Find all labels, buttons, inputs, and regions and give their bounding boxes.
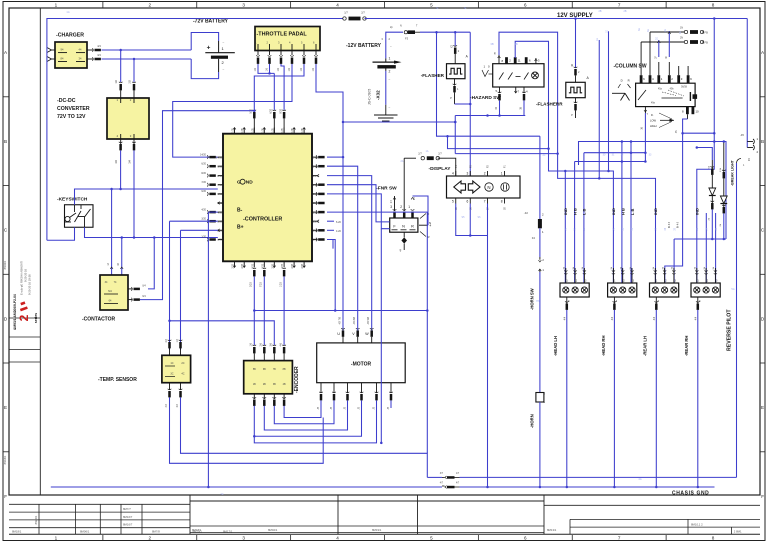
- wire rearLH p2 path: [665, 133, 683, 283]
- wire feeder A: [579, 142, 727, 240]
- column sw bottom left pin: [644, 107, 646, 113]
- svg-text:F: F: [761, 494, 764, 499]
- wire hazard loop B: [515, 41, 613, 283]
- wire brake R down: [723, 213, 725, 239]
- wire charger- to battery loop: [102, 58, 192, 60]
- svg-text:-FNR SW: -FNR SW: [376, 186, 397, 192]
- wire rear lh to bus: [655, 310, 657, 487]
- charger pin B+ lead: [87, 49, 93, 51]
- svg-text:H B: H B: [572, 208, 577, 215]
- svg-text:2: 2: [576, 280, 578, 283]
- svg-text:2/35: 2/35: [262, 263, 264, 268]
- svg-text:6/20: 6/20: [201, 162, 206, 165]
- svg-text:2: 2: [389, 37, 391, 41]
- svg-text:8/20: 8/20: [201, 172, 206, 175]
- svg-text:X2: X2: [451, 44, 454, 48]
- wire fnr p2 up: [403, 158, 405, 211]
- wire temp pin connectors top: [168, 340, 172, 341]
- svg-text:4/7: 4/7: [456, 482, 460, 484]
- svg-text:-12V BATTERY: -12V BATTERY: [346, 43, 382, 49]
- svg-text:-P2: -P2: [740, 133, 745, 137]
- fnr bottom pin: [403, 232, 405, 237]
- svg-text:J5: J5: [331, 406, 333, 409]
- contactor right pin1: [128, 288, 133, 290]
- title block middle grid: [190, 500, 544, 502]
- svg-text:4: 4: [336, 536, 339, 541]
- fnr top pin3: [394, 196, 396, 211]
- fnr pin connectors: [393, 209, 397, 210]
- wire battery line to display p3: [420, 31, 470, 33]
- node brakeL feed: [696, 146, 699, 149]
- head rh lamp cluster E2: [612, 268, 614, 283]
- svg-text:8: 8: [682, 110, 684, 114]
- svg-text:1/36: 1/36: [217, 239, 222, 242]
- svg-text:-72V BATTERY: -72V BATTERY: [193, 19, 229, 25]
- svg-text:D: D: [761, 316, 765, 321]
- svg-text:P4: P4: [456, 164, 458, 168]
- svg-text:IND: IND: [563, 208, 568, 215]
- svg-text:3E: 3E: [638, 28, 641, 31]
- svg-text:6.20: 6.20: [336, 221, 341, 224]
- svg-text:8/36: 8/36: [217, 175, 222, 178]
- node y122 end: [454, 121, 457, 124]
- wire B bus below controller: [254, 310, 427, 312]
- svg-text:1: 1: [743, 164, 745, 167]
- svg-text:2: 2: [149, 3, 152, 8]
- wire hazard p5 down: [499, 100, 501, 115]
- hazard top pin 8: [498, 55, 500, 64]
- svg-text:-TEMP. SENSOR: -TEMP. SENSOR: [98, 377, 137, 383]
- fuse F5 display feed: [421, 157, 424, 160]
- svg-text:J5: J5: [374, 406, 376, 409]
- node motor U taps: [342, 121, 345, 124]
- node brake R join: [723, 238, 726, 241]
- svg-text:-MOTOR: -MOTOR: [351, 362, 372, 368]
- wire rearRH p2 stub: [705, 213, 707, 283]
- svg-text:3d: 3d: [653, 266, 655, 269]
- wire charger- down to dcdc: [133, 59, 135, 82]
- svg-text:4.20: 4.20: [336, 230, 341, 233]
- svg-text:2/2: 2/2: [127, 79, 131, 83]
- svg-text:-HEAD RH: -HEAD RH: [601, 336, 606, 356]
- svg-text:-CHARGER: -CHARGER: [56, 33, 84, 39]
- wire throttle p5: [254, 64, 304, 110]
- svg-text:M4: M4: [108, 290, 112, 293]
- svg-text:1: 1: [55, 536, 58, 541]
- keyswitch S1: [65, 205, 94, 228]
- hazard bottom pin 4: [523, 87, 525, 93]
- wire feeder D headLH-HB: [575, 161, 646, 163]
- svg-text:P2: P2: [747, 157, 751, 161]
- svg-text:C: C: [4, 228, 8, 233]
- svg-text:J5: J5: [388, 406, 390, 409]
- svg-text:2C: 2C: [181, 362, 184, 365]
- controller top pins: [234, 128, 236, 134]
- svg-text:4/4: 4/4: [165, 403, 168, 407]
- wire throttle p3: [281, 64, 284, 110]
- wire ctrl to fnr b: [327, 194, 390, 229]
- svg-text:2/7: 2/7: [361, 11, 365, 15]
- svg-text:R: R: [628, 79, 630, 83]
- controller top pin connectors: [253, 110, 257, 111]
- svg-text:REVERSE PILOT: REVERSE PILOT: [727, 309, 733, 351]
- hazard bottom pin 5: [499, 87, 501, 93]
- svg-text:3: 3: [390, 205, 392, 209]
- controller bottom pin connectors: [253, 268, 257, 269]
- svg-text:2/7: 2/7: [438, 153, 442, 156]
- svg-text:2d: 2d: [709, 217, 711, 220]
- svg-text:3/36: 3/36: [217, 220, 222, 223]
- node feederC right: [644, 151, 647, 154]
- svg-text:F3: F3: [405, 37, 409, 41]
- flasher K2 top pin: [454, 32, 456, 46]
- svg-text:3: 3: [381, 37, 383, 41]
- wire column br to supply drop: [687, 114, 689, 119]
- svg-text:-FLASHERR: -FLASHERR: [536, 102, 563, 107]
- svg-text:N: N: [429, 221, 431, 225]
- svg-text:9-20-20 16: 9-20-20 16: [24, 268, 28, 282]
- svg-text:B+: B+: [237, 225, 244, 231]
- svg-text:IND: IND: [695, 208, 700, 215]
- wire hazard loop A: [499, 32, 656, 283]
- svg-text:R: R: [411, 225, 414, 229]
- svg-text:14/20: 14/20: [200, 153, 207, 156]
- node y189 taps: [110, 188, 113, 191]
- hazard top pin 2: [505, 57, 508, 64]
- svg-text:6: 6: [524, 3, 527, 8]
- svg-text:3/4: 3/4: [127, 159, 131, 163]
- svg-text:S6: S6: [478, 216, 482, 219]
- svg-text:3/7: 3/7: [440, 473, 444, 475]
- node charger- dcdc tap: [133, 58, 136, 61]
- svg-text:8M18/1: 8M18/1: [192, 528, 202, 532]
- controller bottom pins: [234, 261, 236, 267]
- svg-text:1: 1: [544, 400, 546, 404]
- svg-text:F2: F2: [532, 236, 536, 240]
- svg-text:N: N: [402, 225, 405, 229]
- svg-text:B-: B-: [237, 208, 243, 214]
- horn switch S5: [539, 260, 542, 262]
- svg-text:P: P: [571, 113, 573, 117]
- svg-text:8M19/1: 8M19/1: [372, 528, 382, 532]
- wire ctrl to fnr a: [327, 185, 390, 222]
- svg-text:S5: S5: [462, 216, 466, 219]
- svg-text:3/6: 3/6: [270, 342, 273, 346]
- svg-text:–: –: [223, 40, 225, 44]
- wire staircase enc2-motor3: [264, 400, 347, 430]
- wire y153 link: [455, 153, 557, 155]
- svg-text:3d: 3d: [672, 266, 674, 269]
- wire temp feed1: [170, 220, 218, 222]
- svg-text:8M06/1: 8M06/1: [80, 529, 90, 533]
- node contactor p2 join: [253, 109, 256, 112]
- svg-text:45: 45: [675, 130, 678, 133]
- svg-text:3: 3: [538, 59, 540, 63]
- svg-text:1: 1: [656, 280, 658, 283]
- flasher K2: [447, 64, 466, 79]
- fuse F3: [684, 30, 687, 33]
- svg-text:1: 1: [55, 3, 58, 8]
- svg-text:4/20: 4/20: [201, 208, 206, 211]
- svg-text:8M10,1 2: 8M10,1 2: [691, 522, 703, 526]
- svg-text:1: 1: [457, 87, 459, 91]
- svg-text:+: +: [207, 45, 211, 52]
- svg-text:1/2: 1/2: [114, 79, 118, 83]
- hazard top pin 3: [535, 58, 537, 64]
- wire fnr to fuse link: [404, 157, 416, 159]
- svg-text:3B: 3B: [273, 383, 276, 386]
- svg-text:4/36: 4/36: [217, 211, 222, 214]
- svg-text:HIGH: HIGH: [650, 124, 657, 128]
- wire hazard p4 down: [523, 100, 525, 115]
- svg-text:3/20: 3/20: [250, 282, 253, 287]
- dcdc pin1 connector: [119, 82, 123, 83]
- node feederA supply tap: [713, 140, 716, 143]
- svg-text:6/36: 6/36: [217, 165, 222, 168]
- svg-text:6/36: 6/36: [217, 193, 222, 196]
- wire v2 stub: [608, 31, 610, 171]
- svg-text:5B: 5B: [253, 368, 256, 371]
- node B bus dots: [253, 309, 256, 312]
- svg-text:34: 34: [665, 227, 667, 230]
- svg-text:6B: 6B: [263, 368, 266, 371]
- svg-text:14: 14: [107, 262, 110, 265]
- svg-text:2: 2: [578, 70, 580, 74]
- svg-text:2: 2: [757, 150, 759, 154]
- svg-text:IN 4.6: IN 4.6: [678, 221, 680, 228]
- wire keyswitch aux bus: [85, 227, 218, 237]
- svg-text:1N: 1N: [680, 27, 683, 30]
- svg-text:2/7: 2/7: [391, 199, 393, 203]
- svg-text:3/4: 3/4: [176, 403, 179, 407]
- svg-text:2: 2: [542, 258, 544, 262]
- svg-text:-X9 9/8: -X9 9/8: [367, 316, 370, 325]
- wire rear rh to bus: [697, 310, 699, 487]
- svg-text:8: 8: [501, 200, 503, 204]
- svg-text:-HORN: -HORN: [530, 414, 535, 428]
- svg-text:E-sub-pE RIKSHA ABHIJATI: E-sub-pE RIKSHA ABHIJATI: [20, 261, 24, 295]
- svg-text:4/7: 4/7: [414, 196, 416, 200]
- svg-text:1/4: 1/4: [176, 338, 179, 342]
- svg-text:3: 3: [242, 3, 245, 8]
- svg-text:8M7/8: 8M7/8: [152, 529, 160, 533]
- svg-text:E: E: [4, 405, 7, 410]
- svg-text:4/7: 4/7: [440, 482, 444, 484]
- node y148 tap: [446, 135, 449, 138]
- wire battery+ loop: [191, 33, 218, 51]
- wire ctrl row239 drop: [327, 240, 335, 311]
- svg-text:2E: 2E: [656, 37, 659, 40]
- svg-text:4: 4: [336, 3, 339, 8]
- svg-text:2: 2: [17, 314, 31, 321]
- wire contactor p1 drop: [111, 189, 113, 275]
- svg-text:2/6: 2/6: [260, 342, 263, 346]
- svg-text:5: 5: [430, 3, 433, 8]
- grid column labels 1-8: [102, 2, 104, 9]
- wire horn to bus: [539, 402, 541, 487]
- svg-text:W: W: [365, 332, 369, 336]
- svg-text:3B: 3B: [514, 42, 517, 46]
- svg-text:3: 3: [681, 77, 683, 81]
- svg-text:LOW: LOW: [650, 119, 656, 123]
- node headRH-LB taps: [630, 140, 633, 143]
- node display join: [469, 234, 472, 237]
- wire horn upper: [539, 136, 541, 219]
- svg-text:1G: 1G: [66, 11, 69, 14]
- wire column p2 up: [649, 32, 651, 75]
- node charger+ dcdc tap: [119, 49, 122, 52]
- svg-text:5: 5: [495, 89, 497, 93]
- wire temp bus to encoder p3: [170, 321, 275, 345]
- svg-text:8M02/1: 8M02/1: [268, 528, 278, 532]
- svg-text:1: 1: [661, 77, 663, 81]
- node supply right tap: [713, 17, 716, 20]
- svg-text:-REAR RH: -REAR RH: [684, 336, 689, 356]
- svg-text:35: 35: [674, 227, 676, 230]
- display icon beam: [501, 183, 509, 191]
- svg-text:2d: 2d: [720, 223, 722, 226]
- head lh lamp cluster E1: [565, 268, 567, 283]
- dcdc converter U2: [107, 98, 149, 139]
- wire left border loop: [47, 19, 345, 241]
- svg-text:1C: 1C: [170, 362, 173, 365]
- wire head lh to bus: [566, 310, 568, 487]
- wire contactor right run: [148, 238, 154, 289]
- charger AC input arrows: [47, 48, 52, 53]
- svg-text:7: 7: [618, 3, 621, 8]
- svg-text:4E: 4E: [679, 31, 682, 34]
- wire horn lower: [539, 272, 541, 392]
- svg-text:JS-C-0905: JS-C-0905: [368, 89, 372, 105]
- svg-text:D: D: [621, 79, 623, 83]
- column sw bottom right pins: [686, 107, 689, 114]
- svg-text:6: 6: [466, 200, 468, 204]
- svg-text:3E: 3E: [647, 29, 650, 32]
- fuse F1 on supply: [343, 17, 346, 20]
- wire supply main: [365, 18, 748, 20]
- svg-text:38: 38: [571, 63, 574, 66]
- svg-text:2/35: 2/35: [282, 263, 284, 268]
- svg-text:3: 3: [585, 280, 587, 283]
- svg-text:U: U: [337, 332, 340, 336]
- svg-text:8M13/1: 8M13/1: [547, 528, 557, 532]
- svg-text:-X9 8/8: -X9 8/8: [353, 316, 356, 325]
- svg-text:2: 2: [222, 60, 225, 65]
- wire display p5p6 join: [456, 204, 488, 236]
- dcdc pin4 connector: [119, 142, 123, 143]
- wire throttle p6: [316, 64, 455, 122]
- battery G2 12V: [385, 58, 387, 62]
- node flasher loop tap: [435, 31, 438, 34]
- wire head rh to bus: [613, 310, 615, 487]
- node brake L join: [711, 238, 714, 241]
- svg-text:1/6: 1/6: [288, 67, 291, 71]
- svg-text:B: B: [761, 139, 764, 144]
- svg-text:1/20: 1/20: [279, 282, 282, 287]
- svg-text:2: 2: [671, 77, 673, 81]
- svg-text:A: A: [761, 50, 765, 55]
- charger U10: [55, 42, 87, 68]
- svg-text:2: 2: [542, 213, 544, 217]
- svg-text:3/4: 3/4: [97, 53, 101, 57]
- contactor K1: [100, 275, 128, 310]
- wire flasher to display p3: [455, 103, 471, 105]
- charger pin B- lead: [87, 58, 93, 60]
- svg-text:1E: 1E: [596, 38, 599, 41]
- svg-text:6: 6: [524, 536, 527, 541]
- wire v1 stub: [598, 40, 600, 178]
- wire motor6 stub: [390, 400, 392, 408]
- svg-text:N: N: [487, 185, 490, 190]
- svg-text:5G: 5G: [731, 288, 734, 291]
- motor bottom pins: [320, 383, 322, 393]
- svg-text:8M7/7: 8M7/7: [123, 507, 131, 511]
- svg-text:9-20-20 16 19-36: 9-20-20 16 19-36: [28, 274, 32, 295]
- svg-text:3: 3: [242, 536, 245, 541]
- motor top connectors: [341, 328, 345, 329]
- svg-text:IND: IND: [611, 208, 616, 215]
- svg-text:-HORN SW: -HORN SW: [530, 288, 535, 310]
- svg-text:2: 2: [509, 59, 511, 63]
- column p6 stub: [687, 66, 689, 75]
- svg-text:4G: 4G: [638, 478, 641, 481]
- svg-text:-CONTACTOR: -CONTACTOR: [82, 317, 116, 323]
- svg-text:4/4: 4/4: [114, 159, 118, 163]
- svg-text:6/4: 6/4: [142, 295, 146, 298]
- left title strip: [9, 8, 40, 495]
- brake branch R: [722, 170, 726, 171]
- display U5: [447, 176, 521, 198]
- controller U3: [223, 134, 312, 262]
- svg-text:-KEYSWITCH: -KEYSWITCH: [57, 197, 88, 203]
- svg-text:1/6: 1/6: [250, 342, 253, 346]
- svg-text:1: 1: [614, 280, 616, 283]
- svg-text:2: 2: [458, 49, 460, 53]
- node staircase junction: [253, 435, 256, 438]
- svg-text:3: 3: [675, 280, 677, 283]
- svg-text:1/6: 1/6: [300, 67, 303, 71]
- wire contactor p2 drop: [121, 238, 123, 276]
- wire throttle p2: [269, 64, 271, 73]
- svg-text:-X9 7/8: -X9 7/8: [338, 316, 341, 325]
- controller right pin connectors: [316, 155, 317, 159]
- svg-text:33: 33: [649, 154, 652, 157]
- svg-text:6: 6: [529, 59, 531, 63]
- wire charger+ to battery: [102, 49, 192, 51]
- svg-text:8: 8: [502, 59, 504, 63]
- svg-text:T: T: [416, 25, 418, 28]
- grid row labels A-F: [3, 96, 9, 98]
- node gnd bus joins: [207, 486, 210, 489]
- node fnr aux join: [380, 442, 383, 445]
- wire ctrl row157 right: [327, 156, 343, 158]
- hazard switch S2: [493, 64, 544, 87]
- wire rear bus: [674, 238, 726, 240]
- svg-text:2: 2: [389, 70, 391, 74]
- wire ctrl to encoder p2: [263, 276, 265, 345]
- wire rearRH p1 path: [697, 19, 714, 284]
- column p3 stub: [658, 62, 660, 75]
- svg-text:N: N: [400, 25, 402, 28]
- title block right grid: [544, 504, 760, 506]
- svg-text:8: 8: [712, 536, 715, 541]
- node loopA dots: [556, 152, 559, 155]
- throttle padal label box X1: [255, 27, 320, 51]
- svg-text:-BREAK LIGHT: -BREAK LIGHT: [731, 159, 735, 186]
- fnr right annotations: [419, 224, 428, 226]
- svg-text:7: 7: [518, 90, 520, 94]
- svg-text:40: 40: [495, 106, 498, 109]
